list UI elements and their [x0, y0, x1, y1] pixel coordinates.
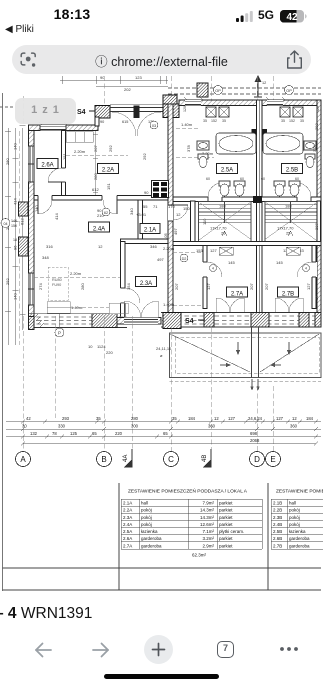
sink+wc on wall bath B — [304, 141, 316, 168]
stairwell wall A left — [191, 201, 196, 242]
svg-text:hall: hall — [141, 501, 148, 506]
svg-text:78: 78 — [52, 431, 57, 436]
svg-text:pokój: pokój — [141, 515, 152, 520]
axis E — [266, 452, 281, 467]
svg-text:292: 292 — [142, 153, 147, 160]
svg-text:2.6A: 2.6A — [41, 163, 53, 169]
svg-text:2.1A: 2.1A — [123, 501, 132, 506]
room label 2.5A — [217, 164, 238, 174]
svg-text:2.7B: 2.7B — [282, 292, 294, 298]
pier in left bottom wall — [92, 314, 117, 328]
svg-text:96: 96 — [13, 245, 18, 250]
svg-text:152: 152 — [211, 119, 217, 123]
svg-text:35: 35 — [172, 416, 177, 421]
svg-text:140: 140 — [11, 219, 17, 223]
svg-text:354: 354 — [126, 283, 131, 290]
stairs A — [199, 202, 252, 242]
roof overhang dashed lines above right wing — [168, 88, 321, 94]
plus button — [144, 635, 173, 664]
shower squares top B — [280, 107, 303, 117]
window in left wall upper — [29, 146, 35, 182]
svg-text:2068: 2068 — [250, 438, 260, 443]
svg-text:S4: S4 — [77, 109, 86, 116]
svg-text:35: 35 — [281, 119, 285, 123]
svg-text:3.2m²: 3.2m² — [202, 536, 214, 541]
svg-text:90: 90 — [144, 190, 149, 195]
svg-text:1.40m: 1.40m — [163, 302, 175, 307]
2.7B door swing arcs — [275, 298, 289, 312]
door 2.7A — [202, 262, 208, 277]
attic slope dashed lines — [34, 128, 214, 307]
5G — [258, 8, 274, 22]
svg-text:316: 316 — [46, 244, 53, 249]
door gap in h-wall — [102, 195, 117, 202]
svg-text:12.6m²: 12.6m² — [200, 522, 215, 527]
svg-text:garderoba: garderoba — [141, 543, 162, 548]
small dims under bottom wall — [88, 344, 113, 355]
svg-text:292: 292 — [5, 278, 10, 285]
tub B — [263, 133, 303, 154]
svg-text:60: 60 — [240, 177, 244, 181]
v-wall 2.7A left — [203, 246, 207, 309]
svg-text:280: 280 — [5, 158, 10, 165]
interior dim chain texts — [42, 190, 190, 262]
svg-text:4: 4 — [212, 267, 214, 271]
svg-text:2.3B: 2.3B — [273, 515, 282, 520]
lens icon — [20, 52, 37, 68]
circled marker 62 — [102, 208, 110, 216]
svg-text:OP: OP — [286, 88, 292, 93]
menu dots — [279, 646, 299, 652]
axis flag 4B — [202, 449, 211, 467]
door gap h-wall left — [38, 195, 52, 202]
svg-text:14.3m²: 14.3m² — [200, 515, 215, 520]
svg-text:300: 300 — [131, 424, 139, 429]
svg-text:280: 280 — [80, 283, 85, 290]
svg-text:152: 152 — [289, 119, 295, 123]
svg-text:127: 127 — [210, 248, 217, 253]
bottom toolbar — [0, 630, 323, 699]
svg-text:2.5B: 2.5B — [286, 168, 298, 174]
svg-text:145: 145 — [228, 260, 235, 265]
svg-text:120: 120 — [316, 106, 320, 112]
connector wall — [95, 117, 99, 126]
door leaf + arc hall door — [116, 200, 118, 214]
svg-text:62.3m²: 62.3m² — [192, 553, 207, 558]
svg-text:127: 127 — [228, 416, 236, 421]
P circle marker — [55, 328, 64, 337]
svg-text:12: 12 — [98, 244, 103, 249]
rotated side dims inside — [34, 145, 317, 290]
svg-text:18: 18 — [13, 238, 17, 242]
wardrobe 2.2A top — [66, 132, 93, 143]
svg-text:125: 125 — [70, 431, 78, 436]
svg-text:65: 65 — [163, 431, 168, 436]
svg-text:2.4A: 2.4A — [123, 522, 132, 527]
paper left edge frame — [2, 93, 4, 591]
svg-text:12: 12 — [176, 212, 181, 217]
svg-text:127: 127 — [276, 416, 284, 421]
axis D — [250, 452, 265, 467]
window in top wall left — [40, 125, 66, 131]
dim numbers row1 — [26, 416, 314, 421]
svg-text:2.6A: 2.6A — [123, 536, 132, 541]
svg-text:2.3A: 2.3A — [140, 281, 152, 287]
svg-text:132: 132 — [30, 431, 38, 436]
svg-text:2.7A: 2.7A — [123, 543, 132, 548]
svg-text:24,6,24: 24,6,24 — [248, 416, 263, 421]
svg-text:293: 293 — [62, 416, 70, 421]
svg-text:4B: 4B — [202, 455, 208, 462]
S4 section marker top — [77, 109, 95, 116]
svg-text:170: 170 — [168, 204, 175, 209]
svg-text:188: 188 — [285, 204, 292, 209]
door swing arcs into 2.2A — [112, 112, 136, 136]
page badge 1 z 1 — [15, 98, 76, 124]
svg-text:garderoba: garderoba — [289, 536, 310, 541]
svg-text:pokój: pokój — [289, 515, 300, 520]
table B rows — [273, 501, 310, 549]
svg-text:393: 393 — [314, 123, 319, 130]
bottom wall right wing dashed band — [161, 313, 321, 328]
door gap 2.6A — [61, 168, 67, 182]
svg-text:330: 330 — [58, 424, 66, 429]
svg-text:127: 127 — [306, 283, 311, 290]
svg-text:60: 60 — [295, 177, 299, 181]
top wall of left wing — [29, 125, 99, 131]
home indicator — [104, 674, 219, 679]
signal bars — [236, 11, 254, 22]
svg-text:62: 62 — [104, 211, 108, 215]
svg-text:340: 340 — [129, 208, 134, 215]
share icon — [286, 50, 303, 70]
room label 2.6A — [37, 159, 58, 169]
svg-text:2.2A: 2.2A — [102, 168, 114, 174]
stairs B — [265, 202, 317, 242]
svg-text:12: 12 — [292, 416, 297, 421]
shower squares top A — [206, 107, 229, 117]
room label 2.2A — [98, 164, 119, 174]
dim numbers row3 — [30, 431, 258, 436]
tick marks row1 — [21, 420, 318, 446]
svg-text:2.4B: 2.4B — [273, 522, 282, 527]
svg-text:71: 71 — [153, 204, 158, 209]
marker OP circle 1 — [214, 86, 223, 95]
sink+wc on wall bath A — [197, 141, 209, 168]
svg-text:garderoba: garderoba — [141, 536, 162, 541]
top wall of right wing — [179, 100, 321, 106]
v-wall between 2.4A and 2.1A — [138, 200, 143, 244]
svg-text:202: 202 — [124, 87, 131, 92]
svg-text:24,11,10: 24,11,10 — [156, 346, 172, 351]
party wall through wing — [252, 327, 259, 378]
axis dashed verticals above plan — [23, 76, 273, 125]
bottom wall left wing dashed band — [29, 314, 128, 328]
svg-text:348: 348 — [42, 255, 49, 260]
svg-text:P: P — [58, 331, 61, 336]
axis A — [16, 452, 31, 467]
svg-text:D: D — [254, 455, 260, 464]
svg-text:35: 35 — [96, 416, 101, 421]
svg-text:S4: S4 — [185, 318, 194, 325]
back to app Pliki — [5, 24, 34, 35]
svg-text:123: 123 — [135, 75, 142, 80]
svg-text:346: 346 — [150, 244, 157, 249]
svg-text:360: 360 — [208, 424, 216, 429]
title block horizontals — [3, 567, 322, 569]
svg-text:pokój: pokój — [141, 522, 152, 527]
svg-text:35: 35 — [300, 119, 304, 123]
table A grid — [121, 499, 262, 549]
svg-text:pokój: pokój — [289, 508, 300, 513]
v-wall 2.7B right — [312, 246, 316, 309]
tub A — [216, 133, 256, 154]
svg-text:pokój: pokój — [289, 522, 300, 527]
url text — [0, 51, 323, 70]
svg-text:35: 35 — [203, 119, 207, 123]
wall left side of right wing — [168, 104, 173, 325]
svg-text:207: 207 — [314, 223, 319, 230]
svg-text:25: 25 — [221, 231, 226, 236]
chimney block — [197, 83, 208, 97]
svg-text:parkiet: parkiet — [219, 501, 233, 506]
axis B — [97, 452, 112, 467]
room label 2.7B — [278, 287, 299, 298]
top dim chain above left wing — [60, 76, 168, 86]
time — [40, 6, 104, 22]
svg-text:280: 280 — [131, 416, 139, 421]
svg-text:414: 414 — [54, 213, 59, 220]
window bath B — [267, 100, 283, 106]
svg-text:90: 90 — [100, 120, 104, 124]
svg-text:12: 12 — [214, 416, 219, 421]
room label 2.4A — [89, 222, 110, 233]
svg-text:03: 03 — [152, 124, 156, 128]
room label 2.7A — [227, 287, 248, 298]
svg-text:parkiet: parkiet — [219, 543, 233, 548]
svg-text:35: 35 — [222, 119, 226, 123]
room label 2.3A — [136, 277, 157, 288]
svg-text:150: 150 — [183, 206, 190, 211]
svg-text:2.20m: 2.20m — [70, 271, 82, 276]
svg-text:2.1B: 2.1B — [273, 501, 282, 506]
status bar — [0, 0, 323, 42]
top-left dashed line — [0, 106, 15, 108]
svg-text:+3.01: +3.01 — [136, 212, 147, 217]
circled marker D2 — [180, 254, 188, 262]
svg-text:188: 188 — [219, 204, 226, 209]
left wall foot block — [29, 317, 35, 330]
svg-text:14: 14 — [314, 295, 319, 300]
svg-text:2.5A: 2.5A — [123, 529, 132, 534]
svg-text:E: E — [270, 455, 275, 464]
svg-text:płytki ceram.: płytki ceram. — [219, 529, 244, 534]
svg-text:hall: hall — [289, 501, 296, 506]
wall under bathrooms — [173, 197, 321, 202]
svg-text:2.5A: 2.5A — [221, 168, 233, 174]
svg-text:A: A — [20, 455, 26, 464]
svg-text:207: 207 — [249, 283, 254, 290]
svg-text:garderoba: garderoba — [289, 543, 310, 548]
tick cluster at wall corner — [34, 314, 44, 327]
svg-text:2.20m: 2.20m — [163, 246, 175, 251]
wc pair bath B — [274, 181, 300, 196]
svg-text:łazienka: łazienka — [141, 529, 158, 534]
circled marker 03 — [150, 121, 158, 129]
2.7A door swing arcs — [216, 298, 230, 312]
roof slope diagonal left — [170, 334, 250, 372]
svg-text:1.40m: 1.40m — [181, 122, 193, 127]
svg-text:2.2A: 2.2A — [123, 508, 132, 513]
svg-text:65: 65 — [92, 431, 97, 436]
svg-text:04: 04 — [4, 222, 8, 226]
bottom file name — [0, 605, 92, 623]
room label 2.1A — [140, 224, 160, 234]
svg-text:90: 90 — [100, 75, 105, 80]
svg-text:220: 220 — [106, 350, 113, 355]
svg-text:parkiet: parkiet — [219, 515, 233, 520]
door gap bath A — [208, 196, 222, 203]
2.3A balcony door opening — [124, 318, 158, 325]
balcony door opening top middle — [110, 108, 163, 112]
svg-text:210: 210 — [97, 213, 104, 218]
party wall center — [257, 100, 263, 325]
v-wall between 2.4A and 2.3A — [121, 242, 126, 318]
axis A dashed line along left wall — [19, 131, 21, 345]
door gap bath B — [297, 196, 311, 203]
url bar — [0, 42, 323, 75]
window end ticks top wall — [39, 97, 285, 125]
left exterior wall — [29, 125, 35, 317]
axis C — [164, 452, 179, 467]
h-wall under 2.6A/2.2A — [34, 196, 168, 201]
svg-text:360: 360 — [290, 424, 298, 429]
S4 section marker bottom — [163, 313, 205, 329]
svg-text:42: 42 — [286, 12, 298, 23]
pier block top 2 — [163, 104, 179, 118]
wc pair bath A — [219, 181, 245, 196]
svg-text:2.1A: 2.1A — [144, 228, 156, 234]
forward arrow — [91, 641, 111, 659]
mullion — [134, 106, 140, 119]
svg-text:145: 145 — [276, 260, 283, 265]
svg-text:615: 615 — [122, 120, 128, 124]
pier block top 1 — [95, 106, 110, 119]
wardrobe boxes along bottom 2.4A — [47, 302, 128, 314]
svg-text:parkiet: parkiet — [219, 536, 233, 541]
title block verticals — [118, 483, 120, 590]
battery 42 — [280, 10, 308, 23]
svg-text:207: 207 — [174, 283, 179, 290]
svg-text:151: 151 — [62, 153, 67, 160]
svg-text:497: 497 — [157, 257, 164, 262]
svg-text:parkiet: parkiet — [219, 522, 233, 527]
svg-text:378: 378 — [312, 145, 317, 152]
svg-text:140: 140 — [34, 205, 39, 212]
dim texts under stairs — [196, 248, 304, 265]
svg-text:2.4A: 2.4A — [93, 227, 105, 233]
svg-text:2.7A: 2.7A — [231, 292, 243, 298]
svg-text:RU80: RU80 — [52, 278, 62, 282]
svg-text:OP: OP — [215, 88, 221, 93]
right edge clipped tiny dims — [314, 123, 319, 300]
circled marker 4a — [210, 265, 217, 272]
svg-text:2.5B: 2.5B — [273, 529, 282, 534]
svg-text:220: 220 — [115, 431, 123, 436]
table A rows — [123, 501, 244, 549]
tiny dims under top wall — [100, 120, 154, 124]
svg-text:184: 184 — [188, 416, 196, 421]
left edge wall-section symbols — [19, 202, 29, 216]
h-wall above 2.3A — [121, 239, 169, 244]
ridge arrow — [254, 76, 262, 97]
svg-text:C: C — [168, 455, 174, 464]
svg-text:7.1m²: 7.1m² — [202, 529, 214, 534]
tub faucet marks — [252, 129, 257, 136]
svg-text:pokój: pokój — [141, 508, 152, 513]
piers in right bottom wall — [204, 313, 214, 328]
svg-text:2.6B: 2.6B — [273, 536, 282, 541]
door gap in x171 wall (hall to landing) — [168, 205, 173, 221]
roof slope diagonal right — [260, 334, 319, 372]
svg-text:12: 12 — [262, 81, 266, 85]
room label 2.5B — [282, 164, 303, 174]
svg-text:378: 378 — [186, 145, 191, 152]
svg-text:292: 292 — [108, 145, 113, 152]
svg-text:1124: 1124 — [97, 344, 106, 349]
wardrobe symbols 2.7 rooms — [219, 247, 300, 255]
axis flag 4A — [123, 449, 132, 467]
svg-text:127: 127 — [206, 283, 211, 290]
svg-text:497: 497 — [173, 228, 178, 235]
svg-text:120: 120 — [183, 106, 187, 112]
svg-text:414: 414 — [13, 198, 18, 205]
window in left wall lower — [29, 273, 35, 305]
svg-text:4A: 4A — [123, 455, 129, 462]
svg-text:30: 30 — [22, 424, 27, 429]
svg-text:55: 55 — [143, 204, 148, 209]
svg-text:ZESTAWIENIE POMIESZCZEŃ PODDAS: ZESTAWIENIE POMIESZCZEŃ PODDASZA / LOKAL… — [128, 488, 248, 495]
door 2.7B — [311, 262, 317, 277]
svg-text:FU90: FU90 — [52, 283, 61, 287]
svg-text:2.9m²: 2.9m² — [202, 543, 214, 548]
v-wall between 2.6A and 2.2A — [62, 131, 66, 196]
svg-text:151: 151 — [106, 183, 111, 190]
svg-text:110: 110 — [202, 218, 207, 225]
stairwell wall B right — [317, 201, 321, 242]
svg-text:140: 140 — [13, 293, 18, 300]
svg-text:14.3m²: 14.3m² — [200, 508, 215, 513]
svg-text:2.2B: 2.2B — [273, 508, 282, 513]
boiler symbol — [152, 181, 169, 198]
svg-text:150: 150 — [11, 224, 17, 228]
svg-text:274: 274 — [38, 283, 43, 290]
marker OP circle 2 — [285, 86, 294, 95]
wall under stairs — [173, 242, 321, 246]
svg-text:7.9m²: 7.9m² — [202, 501, 214, 506]
corner pier bottom left — [29, 314, 35, 328]
chimney at junction — [163, 95, 177, 104]
svg-text:ZESTAWIENIE POMIE: ZESTAWIENIE POMIE — [276, 489, 323, 495]
svg-text:105: 105 — [163, 233, 168, 240]
svg-text:B: B — [101, 455, 106, 464]
tab switcher — [217, 641, 234, 658]
svg-text:10: 10 — [88, 344, 93, 349]
table B grid — [271, 499, 323, 549]
svg-text:207: 207 — [264, 283, 269, 290]
svg-text:1.40m.: 1.40m. — [71, 305, 83, 310]
svg-text:2.3A: 2.3A — [123, 515, 132, 520]
